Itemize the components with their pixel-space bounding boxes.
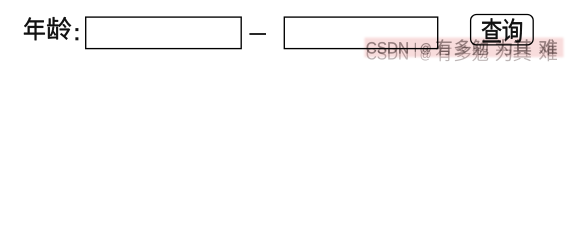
dash separator (249, 33, 266, 35)
input box 2 (284, 17, 437, 48)
label nianling (24, 17, 71, 40)
watermark text (367, 39, 557, 55)
watermark ghost text (367, 45, 557, 61)
input box 1 (86, 17, 242, 48)
query button (471, 15, 534, 45)
watermark pink tint band (365, 38, 564, 58)
button text chaxun (482, 18, 522, 42)
label colon (75, 28, 78, 40)
